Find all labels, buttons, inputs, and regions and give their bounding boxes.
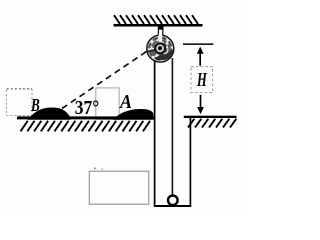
H dimension top line — [183, 43, 213, 45]
left table surface — [17, 116, 155, 119]
right ground hatching — [188, 119, 236, 128]
svg-text:37°: 37° — [75, 97, 100, 119]
white box left (near B) — [7, 89, 33, 116]
rope: vertical section — [171, 58, 173, 196]
svg-text:H: H — [196, 70, 207, 91]
up arrow — [199, 53, 201, 66]
pit left wall / left tangent line — [154, 59, 156, 207]
block A — [113, 109, 154, 120]
pulley — [145, 34, 174, 62]
rope: dashed 37-degree section — [62, 51, 148, 109]
H dashed box — [191, 67, 213, 93]
pit right wall — [189, 118, 191, 207]
left surface hatching — [21, 121, 151, 132]
ring at rope end — [168, 196, 178, 206]
white box bottom — [89, 171, 149, 204]
right ground surface — [184, 116, 237, 118]
block B — [28, 108, 71, 120]
down arrow — [200, 95, 202, 108]
ceiling — [114, 24, 203, 27]
svg-text:A: A — [118, 92, 132, 113]
ceiling hatching — [114, 15, 198, 24]
specks above bottom box — [94, 168, 96, 169]
svg-text:B: B — [30, 95, 40, 115]
white box middle (near A) — [96, 88, 119, 120]
pit bottom — [154, 205, 191, 207]
pulley bracket — [158, 27, 162, 40]
